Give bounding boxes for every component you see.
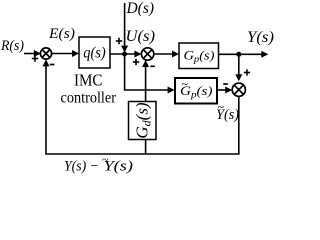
svg-text:D(s): D(s) <box>126 0 154 17</box>
svg-text:IMC: IMC <box>74 71 103 90</box>
block Gp(s) <box>179 43 219 69</box>
block Gp-tilde(s) model <box>175 77 217 104</box>
node plus sign at D entry <box>116 38 122 44</box>
svg-text:R(s): R(s) <box>0 38 24 54</box>
node junction dot U(s) <box>122 52 127 57</box>
svg-text:Gp(s): Gp(s) <box>184 48 215 65</box>
svg-text:controller: controller <box>61 90 117 107</box>
wire Y branch down into summer 3 <box>238 54 240 75</box>
wire feedback bottom line <box>45 153 239 155</box>
node minus sign at summer 2 <box>150 65 154 67</box>
wire feedback line up into Gd(s) <box>145 140 147 155</box>
wire U branch down and right to model block <box>125 54 169 90</box>
svg-text:E(s): E(s) <box>48 26 75 42</box>
node junction dot at Y branch <box>236 52 241 57</box>
node Y-tilde(s) label <box>216 100 239 123</box>
wire Gd(s) up into summer 2 <box>145 65 147 102</box>
svg-text:~: ~ <box>182 77 189 91</box>
label Y(s) minus Y-tilde(s) <box>64 153 133 175</box>
summing junction 2 <box>141 48 153 60</box>
wire feedback into summer 1 bottom <box>45 62 47 154</box>
node plus sign at summer 3 <box>244 69 250 75</box>
block q(s) <box>79 37 110 68</box>
wire summer 3 down to feedback line <box>238 96 240 154</box>
svg-text:q(s): q(s) <box>83 45 106 62</box>
svg-text:Y(s) −: Y(s) − <box>64 159 99 175</box>
svg-text:Gd(s): Gd(s) <box>133 102 154 139</box>
summing junction 3 <box>232 83 245 96</box>
wire summer 2 to Gp(s) <box>154 53 175 55</box>
wire summer 1 to q(s) <box>52 53 74 55</box>
wire model block to summer 3 <box>217 89 228 91</box>
node plus sign at summer 1 <box>32 55 38 61</box>
wire R(s) to summing junction <box>24 53 36 55</box>
svg-text:~: ~ <box>102 153 109 167</box>
svg-text:U(s): U(s) <box>126 28 156 45</box>
block Gd(s) disturbance filter <box>129 102 157 140</box>
wire q(s) to summer 2 <box>110 53 137 55</box>
node minus sign at summer 3 <box>223 83 228 85</box>
svg-text:Y(s): Y(s) <box>247 29 274 46</box>
summing junction 1 <box>40 48 51 59</box>
node plus sign at summer 2 <box>133 59 139 65</box>
node minus sign at summer 1 <box>50 64 55 66</box>
wire D(s) disturbance down <box>124 3 126 47</box>
wire Gp(s) to output Y(s) <box>219 53 264 55</box>
svg-text:~: ~ <box>218 100 225 114</box>
